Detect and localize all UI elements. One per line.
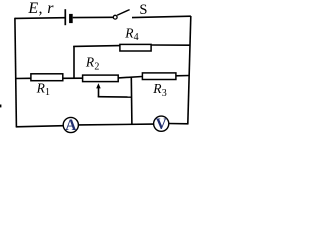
- wire bottom-right segment: [169, 123, 189, 125]
- wire junction vertical R4-branch down to R1/R2 node: [73, 46, 75, 79]
- wire R3 to right wire: [176, 75, 190, 77]
- wire R1 to R2 (junction node): [63, 77, 82, 79]
- wire bottom-middle segment: [78, 123, 153, 126]
- wire bottom-left segment: [16, 126, 64, 127]
- svg-text:A: A: [65, 117, 77, 134]
- wire right side vertical: [188, 16, 191, 124]
- switch S: [113, 10, 129, 20]
- wire left side vertical: [15, 18, 17, 127]
- wire battery to switch: [73, 16, 114, 18]
- resistor R4: [120, 44, 151, 51]
- wire R2 to R3: [118, 77, 142, 78]
- svg-text:S: S: [139, 2, 147, 18]
- svg-text:E, r: E, r: [27, 0, 54, 17]
- resistor R2: [83, 75, 119, 82]
- wire top-left from corner to battery: [15, 17, 65, 20]
- ammeter A: [63, 117, 78, 134]
- clipped stray character at left edge: [0, 105, 1, 108]
- svg-text:V: V: [156, 116, 168, 133]
- wire slider tap horizontal: [98, 96, 132, 98]
- resistor R3: [142, 73, 176, 80]
- wire left wire to R1: [16, 77, 31, 79]
- resistor R1: [31, 74, 63, 81]
- wire vertical node to bottom (voltmeter branch): [130, 77, 133, 125]
- voltmeter V: [154, 116, 169, 133]
- wire R4-branch left horizontal: [73, 45, 119, 48]
- wire switch to top-right corner: [132, 16, 191, 17]
- wire R4 to right wire: [152, 44, 191, 46]
- battery E,r: [65, 9, 72, 25]
- slider arrow of rheostat R2: [96, 83, 101, 97]
